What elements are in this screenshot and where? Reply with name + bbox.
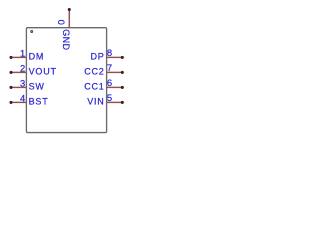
wire (11, 86, 26, 88)
svg-text:6: 6 (107, 77, 112, 88)
svg-text:CC1: CC1 (84, 82, 104, 92)
svg-text:1: 1 (20, 47, 25, 58)
pin 7 CC2 (84, 62, 124, 76)
node dot (9, 101, 12, 104)
pin 4 BST (9, 92, 48, 106)
node dot (9, 86, 12, 89)
pin 5 VIN (87, 92, 124, 106)
svg-text:5: 5 (107, 92, 112, 103)
node dot (121, 101, 124, 104)
node dot (9, 71, 12, 74)
pin 0 GND top (56, 8, 71, 51)
pin 6 CC1 (84, 77, 124, 91)
svg-text:SW: SW (29, 82, 45, 92)
pin 8 DP (90, 47, 123, 61)
svg-text:4: 4 (20, 92, 25, 103)
pin 1 DM (9, 47, 44, 61)
node dot (121, 56, 124, 59)
svg-text:8: 8 (107, 47, 112, 58)
wire (107, 71, 123, 73)
pin 3 SW (9, 77, 44, 91)
node dot (121, 86, 124, 89)
svg-text:DP: DP (90, 52, 104, 62)
IC body (26, 28, 106, 133)
pin-1 marker dot (31, 30, 33, 32)
svg-text:GND: GND (61, 29, 71, 50)
wire (11, 56, 26, 58)
pin 2 VOUT (9, 62, 56, 76)
wire (11, 101, 26, 103)
svg-text:0: 0 (56, 20, 67, 25)
wire (107, 86, 123, 88)
svg-text:VIN: VIN (87, 97, 104, 107)
svg-text:BST: BST (29, 97, 49, 107)
wire (107, 56, 123, 58)
svg-text:7: 7 (107, 62, 112, 73)
node dot pin0 (68, 8, 71, 11)
wire (11, 71, 26, 73)
node dot (121, 71, 124, 74)
wire (107, 101, 123, 103)
svg-text:CC2: CC2 (84, 67, 104, 77)
svg-text:VOUT: VOUT (29, 67, 57, 77)
svg-text:2: 2 (20, 62, 25, 73)
node dot (9, 56, 12, 59)
svg-text:3: 3 (20, 77, 25, 88)
wire pin0 (68, 10, 70, 29)
svg-text:DM: DM (29, 52, 45, 62)
